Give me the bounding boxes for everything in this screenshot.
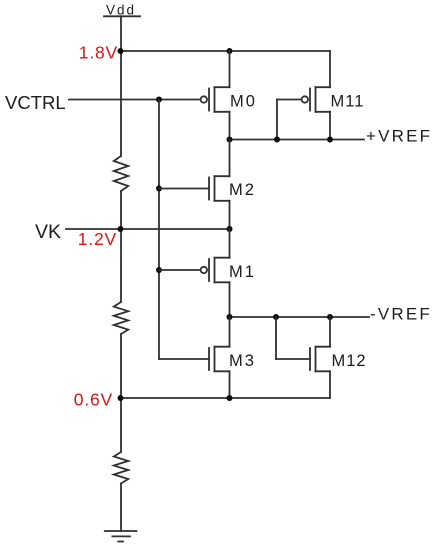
transistor M1 (PMOS) (159, 229, 230, 317)
node M1 gate junction on second rail (156, 267, 162, 273)
ground (105, 531, 137, 542)
wire +VREF line (230, 139, 365, 141)
svg-text:0.6V: 0.6V (74, 390, 113, 410)
transistor M11 (PMOS) (277, 51, 330, 140)
wire VK line (66, 228, 230, 230)
wire M12 gate from -VREF (275, 317, 277, 359)
svg-text:M3: M3 (229, 352, 256, 370)
node M11 drain junction (327, 137, 333, 143)
svg-text:VK: VK (35, 221, 61, 243)
node VK to M2/M1 column junction (227, 226, 233, 232)
node M0 drain junction (227, 137, 233, 143)
node M12 gate junction (273, 314, 279, 320)
transistor M0 (PMOS) (201, 51, 230, 140)
power symbol Vdd (104, 3, 140, 18)
wire left rail R1 to R2 (120, 191, 122, 302)
wire -VREF line (230, 316, 370, 318)
node 1.8V junction at left rail (118, 48, 124, 54)
wire left rail R2 to R3 (120, 334, 122, 452)
wire 0.6V line (121, 397, 330, 399)
wire left rail Vdd to R1 top (120, 16, 122, 156)
transistor M2 (NMOS) (159, 140, 230, 230)
svg-text:M2: M2 (229, 181, 256, 199)
svg-text:M12: M12 (332, 352, 367, 370)
wire VCTRL line (69, 99, 200, 101)
transistor M12 (NMOS) (276, 317, 330, 398)
node M3 source junction on 0.6V line (227, 395, 233, 401)
svg-text:M11: M11 (331, 93, 365, 111)
node M12 drain junction (327, 314, 333, 320)
wire second rail vertical (158, 100, 160, 360)
wire M11 gate to +VREF (276, 100, 278, 140)
node M11 gate junction (274, 137, 280, 143)
node M0 source junction on 1.8V rail (227, 48, 233, 54)
svg-text:Vdd: Vdd (106, 3, 136, 18)
svg-text:-VREF: -VREF (370, 305, 432, 324)
resistor R1 (114, 156, 128, 191)
node 0.6V junction at left rail (118, 395, 124, 401)
node VK junction at left rail (118, 226, 124, 232)
svg-text:+VREF: +VREF (366, 127, 432, 146)
svg-text:VCTRL: VCTRL (5, 92, 66, 113)
resistor R2 (114, 302, 128, 334)
node M1 drain junction (227, 314, 233, 320)
svg-text:1.8V: 1.8V (79, 43, 118, 63)
node M2 gate junction on second rail (156, 186, 162, 192)
transistor M3 (NMOS) (159, 317, 230, 398)
resistor R3 (114, 452, 128, 484)
svg-text:M1: M1 (229, 263, 256, 281)
svg-text:M0: M0 (230, 93, 257, 111)
node VCTRL to second rail junction (156, 97, 162, 103)
wire 1.8V rail horizontal (121, 50, 330, 52)
svg-text:1.2V: 1.2V (78, 229, 117, 249)
wire left rail R3 to ground (120, 484, 122, 532)
